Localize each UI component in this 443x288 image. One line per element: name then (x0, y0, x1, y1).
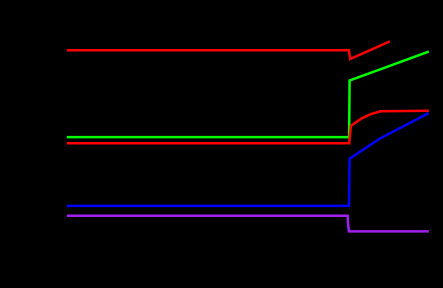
red line 2 (67, 111, 429, 144)
purple line (67, 216, 429, 232)
red line 1 (top) (67, 41, 390, 59)
green line (67, 52, 429, 138)
blue line (67, 113, 429, 206)
